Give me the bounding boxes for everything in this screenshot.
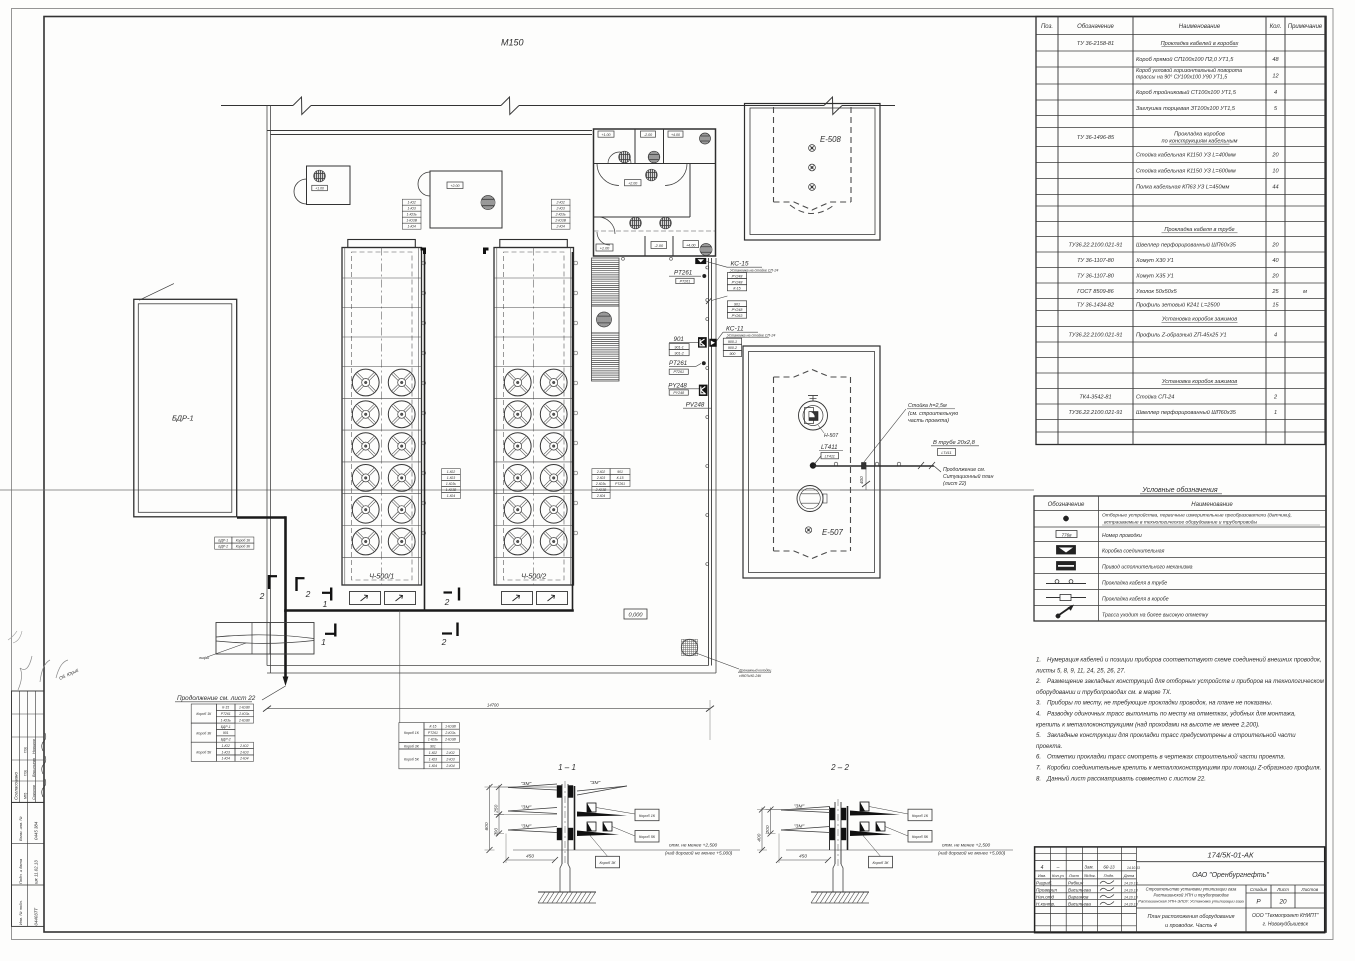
- svg-text:ТУ 36-1496-85: ТУ 36-1496-85: [1077, 135, 1115, 141]
- label pipe 20x2.8: [931, 440, 979, 456]
- title block sheet title: [1148, 914, 1235, 929]
- svg-text:Установка коробок зажимов: Установка коробок зажимов: [1161, 317, 1237, 323]
- E-507 nozzle and label: [805, 527, 843, 537]
- legend symbol: cable in duct: [1046, 594, 1169, 602]
- equipment block B: [418, 171, 502, 228]
- spec rows: cable structures section: [1077, 132, 1280, 191]
- svg-text:Короб 1К: Короб 1К: [236, 539, 251, 543]
- cooler Ч-500/1 grid: [342, 278, 422, 557]
- left margin inventory table: [12, 802, 45, 926]
- svg-text:Васильева: Васильева: [1068, 888, 1091, 893]
- svg-text:+1.00: +1.00: [315, 186, 324, 190]
- svg-text:сд607к/Ю-24К: сд607к/Ю-24К: [739, 674, 762, 678]
- continuation text sheet 22: [175, 694, 256, 702]
- site boundary west double line: [267, 106, 271, 674]
- cooler Ч-500/2 outline: [494, 240, 574, 586]
- svg-text:по конструкциям кабельным: по конструкциям кабельным: [1162, 139, 1238, 145]
- svg-text:Коробки соединительные крепить: Коробки соединительные крепить к металло…: [1047, 766, 1321, 772]
- svg-text:г. Новокуйбышевск: г. Новокуйбышевск: [1263, 921, 1309, 928]
- svg-text:Рябкин: Рябкин: [1068, 881, 1084, 886]
- svg-text:2-Ю3В: 2-Ю3В: [444, 738, 456, 742]
- svg-text:1-Ю3: 1-Ю3: [429, 758, 437, 762]
- svg-text:PT261: PT261: [674, 270, 692, 277]
- svg-text:Прокладка коробов: Прокладка коробов: [1174, 132, 1225, 138]
- spec rows: cable duct section: [1077, 40, 1280, 112]
- svg-text:План расположения оборудования: План расположения оборудования: [1148, 914, 1235, 920]
- building inner walls: [594, 129, 716, 256]
- building room level labels: [596, 131, 699, 251]
- svg-text:Р: Р: [1256, 899, 1261, 906]
- stairs lower flight: [592, 333, 620, 381]
- svg-text:+1.00: +1.00: [600, 247, 610, 251]
- svg-text:"ЗМ": "ЗМ": [521, 805, 532, 811]
- spec rows: terminal boxes section 1: [1069, 317, 1278, 339]
- label group 901 PY248 PY263: [706, 296, 747, 318]
- svg-text:ГОСТ 8509-86: ГОСТ 8509-86: [1077, 289, 1114, 295]
- svg-text:Хомут Х30 У1: Хомут Х30 У1: [1135, 258, 1174, 264]
- svg-text:Заглушка торцевая ЗТ100х100 УТ: Заглушка торцевая ЗТ100х100 УТ1,5: [1136, 106, 1236, 112]
- svg-text:Хомут Х35 У1: Хомут Х35 У1: [1135, 273, 1174, 279]
- specification table header: [1041, 24, 1323, 30]
- svg-text:БДР-1: БДР-1: [221, 725, 231, 729]
- svg-text:PY248: PY248: [732, 308, 743, 312]
- svg-text:Подп.: Подп.: [1104, 873, 1115, 878]
- svg-text:PT261: PT261: [680, 279, 691, 283]
- svg-text:Согласовано: Согласовано: [14, 772, 19, 800]
- svg-text:Обозначение: Обозначение: [1048, 502, 1085, 508]
- svg-text:450: 450: [526, 854, 534, 860]
- svg-text:Уголок 50х50х5: Уголок 50х50х5: [1135, 289, 1178, 295]
- cooler Ч-500/1 bottom boxes: [350, 592, 416, 605]
- svg-text:1-Ю2: 1-Ю2: [407, 201, 415, 205]
- svg-text:Соколов: Соколов: [32, 785, 36, 800]
- svg-text:Короб 5К: Короб 5К: [639, 835, 656, 839]
- svg-text:2-Ю3: 2-Ю3: [445, 758, 454, 762]
- svg-text:оборудовании и трубопроводах с: оборудовании и трубопроводах см. в марке…: [1036, 690, 1172, 696]
- svg-text:(над дорогой не менее +5,000): (над дорогой не менее +5,000): [665, 850, 733, 856]
- svg-text:К-15: К-15: [222, 706, 229, 710]
- svg-text:2-Ю2: 2-Ю2: [445, 751, 454, 755]
- section 1 – 1 ground line and elevation note: [513, 843, 740, 856]
- section 2 – 2 dimensions: [757, 807, 832, 864]
- svg-text:PY248: PY248: [668, 383, 687, 390]
- svg-text:14.10.13: 14.10.13: [1124, 882, 1138, 886]
- junction box KC-15 symbol: [696, 258, 707, 264]
- svg-text:Короб 3К: Короб 3К: [599, 861, 616, 865]
- svg-text:2: 2: [305, 589, 311, 599]
- svg-text:2-Ю3ь: 2-Ю3ь: [555, 213, 566, 217]
- svg-text:2-Ю3В: 2-Ю3В: [595, 488, 607, 492]
- svg-text:Ч-500/2: Ч-500/2: [521, 572, 546, 581]
- tank E-507 enclosure: [743, 346, 880, 578]
- cooler Ч-500/2 label: [521, 572, 546, 581]
- svg-text:Дренажный колодец: Дренажный колодец: [738, 669, 771, 673]
- bold cable continuation arrow: [262, 611, 288, 701]
- legend symbol: actuator drive: [1057, 562, 1193, 571]
- title block grid: [1035, 847, 1325, 933]
- svg-text:Прокладка кабеля в трубе: Прокладка кабеля в трубе: [1164, 227, 1234, 233]
- elevation 0.000 box: [624, 609, 647, 619]
- svg-text:"ЗМ": "ЗМ": [590, 780, 601, 786]
- section 2 – 2 right arms: [850, 802, 900, 836]
- svg-text:ПЭ): ПЭ): [24, 770, 28, 776]
- svg-text:Взам. инв. №: Взам. инв. №: [18, 816, 23, 841]
- svg-text:М150: М150: [501, 38, 524, 48]
- svg-text:2-Ю2: 2-Ю2: [239, 744, 248, 748]
- svg-text:04403ТТ: 04403ТТ: [34, 908, 39, 926]
- spec rows: terminal boxes section 2: [1069, 379, 1278, 416]
- svg-text:400: 400: [757, 833, 763, 841]
- svg-text:LT411: LT411: [821, 444, 838, 451]
- svg-text:1-Ю3В: 1-Ю3В: [445, 725, 456, 729]
- svg-text:Е-507: Е-507: [822, 528, 843, 537]
- section mark 1 (lower): [321, 624, 335, 648]
- spec rows: cable in pipe section: [1069, 227, 1308, 309]
- BDR table: [215, 537, 254, 549]
- svg-text:44: 44: [1272, 185, 1278, 191]
- svg-text:проекта.: проекта.: [1036, 744, 1062, 750]
- E-507 manhole circle: [797, 486, 827, 512]
- site fence north: [221, 97, 895, 115]
- svg-text:Расташинской УПН и трубопровод: Расташинской УПН и трубопроводов: [1153, 893, 1229, 898]
- section 1 – 1 pole: [560, 781, 570, 892]
- svg-text:Стойка кабельная К1150 УЗ L=6: Стойка кабельная К1150 УЗ L=600мм: [1136, 168, 1236, 175]
- svg-text:(лист 22): (лист 22): [943, 481, 967, 487]
- svg-text:1-Ю3ь: 1-Ю3ь: [446, 482, 456, 486]
- tank E-508 nozzles: [809, 145, 816, 191]
- building door arcs: [597, 152, 687, 245]
- svg-text:1-Ю2: 1-Ю2: [222, 744, 230, 748]
- svg-text:ТУ 36-1107-80: ТУ 36-1107-80: [1077, 258, 1115, 264]
- svg-text:Поз.: Поз.: [1041, 24, 1053, 30]
- svg-text:Размещение закладных конструкц: Размещение закладных конструкций для отб…: [1047, 678, 1325, 685]
- svg-text:Условные обозначения: Условные обозначения: [1141, 486, 1218, 494]
- svg-text:Номер проводки: Номер проводки: [1102, 533, 1142, 539]
- svg-text:Проверил: Проверил: [1036, 888, 1057, 893]
- label PY248 with junction box: [668, 383, 707, 396]
- level transmitter LT411: [819, 444, 843, 459]
- svg-text:Наименование: Наименование: [1179, 24, 1221, 30]
- svg-text:Короб 3К: Короб 3К: [404, 744, 420, 748]
- svg-text:1-Ю3В: 1-Ю3В: [239, 706, 250, 710]
- legend symbol: instrument dot: [1063, 512, 1320, 526]
- svg-text:Короб прямой СП100х100 П2,0 УТ: Короб прямой СП100х100 П2,0 УТ1,5: [1136, 56, 1234, 63]
- svg-text:Короб 5К: Короб 5К: [404, 758, 420, 762]
- svg-text:Зам.: Зам.: [1084, 865, 1093, 870]
- instrument point on E-507: [810, 463, 816, 469]
- svg-text:600: 600: [484, 822, 490, 830]
- svg-text:Профиль зетовый К241 L=2500: Профиль зетовый К241 L=2500: [1136, 302, 1221, 309]
- section mark 2 (unit2 lower): [441, 623, 458, 648]
- svg-text:Продолжение см.: Продолжение см.: [943, 467, 985, 473]
- svg-text:Н-507: Н-507: [824, 433, 839, 439]
- svg-text:25: 25: [1271, 289, 1279, 295]
- wire stack 4 (mid, unit 2): [592, 469, 630, 499]
- svg-text:Разводку одиночных трасс выпол: Разводку одиночных трасс выполнить по ме…: [1047, 712, 1296, 718]
- section mark 2 (unit2 upper): [444, 588, 460, 608]
- svg-text:4: 4: [1274, 332, 1277, 338]
- svg-text:14.10.13: 14.10.13: [1124, 896, 1138, 900]
- svg-text:Прокладка кабелей в коробах: Прокладка кабелей в коробах: [1161, 40, 1239, 47]
- svg-text:-2.00: -2.00: [644, 133, 652, 137]
- section 1 – 1 title: [558, 763, 576, 772]
- svg-text:Стойка h=2,5м: Стойка h=2,5м: [908, 402, 947, 409]
- svg-text:Васильева: Васильева: [1068, 901, 1091, 906]
- svg-text:12: 12: [1272, 74, 1279, 80]
- svg-text:Короб 1К: Короб 1К: [196, 712, 212, 716]
- cooler Ч-500/1 side fixation circles: [422, 261, 426, 535]
- label PV248: [683, 402, 711, 409]
- svg-text:Профиль Z-образный ZП-45х25 У1: Профиль Z-образный ZП-45х25 У1: [1136, 331, 1227, 338]
- svg-text:Короб 3К: Короб 3К: [196, 731, 212, 735]
- svg-text:+4.00: +4.00: [686, 243, 696, 247]
- svg-text:Примечание: Примечание: [1288, 24, 1323, 30]
- svg-text:ТУ 36-2158-81: ТУ 36-2158-81: [1077, 41, 1114, 47]
- svg-text:-2.00: -2.00: [654, 244, 664, 248]
- svg-text:Короб 5К: Короб 5К: [196, 750, 212, 754]
- label KC-15 group: [707, 261, 779, 291]
- legend title: [1140, 486, 1222, 494]
- svg-text:10: 10: [1272, 169, 1279, 175]
- svg-text:PV248: PV248: [686, 402, 705, 409]
- svg-text:К-15: К-15: [617, 476, 624, 480]
- legend symbol: route goes up: [1056, 605, 1209, 619]
- label 901 left: [669, 336, 698, 356]
- svg-text:"ЗМ": "ЗМ": [521, 824, 532, 830]
- svg-text:и проводок. Часть 4: и проводок. Часть 4: [1165, 923, 1217, 929]
- svg-text:Прокладка кабеля в трубе: Прокладка кабеля в трубе: [1102, 581, 1167, 587]
- svg-text:Нач.отд: Нач.отд: [1036, 894, 1055, 899]
- svg-text:шк 11.02.13: шк 11.02.13: [34, 860, 39, 884]
- svg-text:Обозначение: Обозначение: [1077, 24, 1114, 30]
- svg-text:КС-15: КС-15: [731, 261, 749, 268]
- title block stage-sheet header: [1250, 887, 1319, 905]
- svg-text:PY263: PY263: [732, 314, 743, 318]
- bold cable duct cooler risers: [421, 248, 573, 611]
- tank E-508 enclosure: [745, 104, 881, 241]
- cooler Ч-500/2 fans: [504, 369, 567, 555]
- equipment block A: [294, 166, 350, 205]
- svg-text:Разраб.: Разраб.: [1036, 881, 1053, 886]
- svg-text:900: 900: [729, 352, 735, 356]
- duct content table left: [191, 704, 253, 761]
- svg-text:14.10.13: 14.10.13: [1124, 889, 1138, 893]
- section 1 – 1 right arms: [577, 780, 627, 836]
- svg-text:8.: 8.: [1036, 776, 1041, 782]
- svg-text:1-Ю3: 1-Ю3: [447, 476, 455, 480]
- svg-text:Короб 5К: Короб 5К: [912, 835, 929, 839]
- svg-text:PY248: PY248: [732, 280, 743, 284]
- svg-text:1 – 1: 1 – 1: [558, 763, 576, 772]
- wire from duct to table right: [399, 611, 401, 723]
- pump H-507: [799, 396, 840, 440]
- stairs landing with instrument: [592, 306, 620, 333]
- specification table grid: [1036, 17, 1325, 445]
- svg-text:Продолжение см. лист 22: Продолжение см. лист 22: [177, 694, 256, 702]
- svg-text:"ЗМ": "ЗМ": [794, 804, 805, 810]
- svg-text:Швеллер перфорированный ШП60х: Швеллер перфорированный ШП60х35: [1136, 409, 1237, 416]
- svg-text:900-2: 900-2: [728, 346, 737, 350]
- section 2 – 2 duct labels: [863, 807, 932, 868]
- svg-text:1-Ю4: 1-Ю4: [447, 494, 455, 498]
- svg-text:LT411: LT411: [825, 455, 835, 459]
- svg-text:Е-508: Е-508: [820, 135, 841, 144]
- svg-text:2-Ю4: 2-Ю4: [239, 757, 248, 761]
- section 1 – 1 ground hatch: [538, 892, 596, 903]
- svg-text:7.: 7.: [1036, 766, 1041, 772]
- svg-text:+4.00: +4.00: [671, 133, 680, 137]
- wire stack 1 (north, unit 1): [402, 199, 421, 229]
- svg-text:1-Ю3ь: 1-Ю3ь: [221, 718, 231, 722]
- svg-text:48: 48: [1272, 57, 1279, 63]
- svg-text:174/5К-01-АК: 174/5К-01-АК: [1208, 851, 1255, 860]
- cooler Ч-500/2 side fixation circles: [574, 261, 578, 535]
- legend table grid: [1034, 496, 1326, 621]
- svg-text:Установка на стойке СП-24: Установка на стойке СП-24: [727, 333, 775, 337]
- svg-text:Стойка СП-24: Стойка СП-24: [1136, 393, 1174, 400]
- title block company: [1192, 871, 1269, 879]
- svg-text:900-1: 900-1: [728, 340, 737, 344]
- stairs upper flight: [592, 258, 620, 306]
- svg-text:2: 2: [441, 637, 447, 647]
- svg-text:Стадия: Стадия: [1250, 887, 1268, 892]
- svg-text:1-Ю3ь: 1-Ю3ь: [407, 213, 417, 217]
- svg-text:Трасса уходит на более высокую: Трасса уходит на более высокую отметку: [1102, 613, 1209, 619]
- svg-text:20: 20: [1278, 899, 1287, 906]
- site boundary east double line: [709, 258, 717, 673]
- duct content table right: [399, 723, 459, 769]
- svg-text:Короб 3К: Короб 3К: [872, 861, 889, 865]
- svg-text:К-15: К-15: [733, 287, 740, 291]
- svg-text:Кол.уч: Кол.уч: [1052, 873, 1064, 878]
- svg-text:Н.контр.: Н.контр.: [1036, 901, 1055, 906]
- svg-text:часть проекта): часть проекта): [908, 418, 949, 424]
- svg-text:2: 2: [259, 591, 265, 601]
- svg-text:901: 901: [674, 336, 684, 343]
- svg-text:2-Ю3: 2-Ю3: [239, 750, 248, 754]
- svg-text:2-Ю3ь: 2-Ю3ь: [444, 731, 455, 735]
- svg-text:14.10.13: 14.10.13: [1124, 903, 1138, 907]
- svg-text:ТУ 36-1434-82: ТУ 36-1434-82: [1077, 303, 1115, 309]
- svg-text:Короб тройниковый СТ100х100 УТ: Короб тройниковый СТ100х100 УТ1,5: [1136, 89, 1237, 96]
- svg-text:Установка коробок зажимов: Установка коробок зажимов: [1161, 379, 1237, 385]
- section 1 – 1 dimensions: [484, 784, 558, 863]
- svg-text:Подп. и дата: Подп. и дата: [18, 858, 23, 884]
- boundary tick circles south of building: [622, 257, 673, 260]
- svg-text:1-Ю4: 1-Ю4: [222, 757, 230, 761]
- section 2 – 2 ground line and elevation note: [786, 843, 1013, 856]
- svg-text:БДР-2: БДР-2: [221, 738, 231, 742]
- svg-text:№док.: №док.: [1084, 873, 1096, 878]
- svg-text:1-Ю2: 1-Ю2: [447, 470, 455, 474]
- svg-text:крепить к металлоконструкциям: крепить к металлоконструкциям (над прохо…: [1036, 722, 1260, 728]
- svg-text:776в: 776в: [1062, 532, 1073, 537]
- svg-text:ПЭ): ПЭ): [24, 747, 28, 753]
- block BDR-1: [134, 284, 237, 517]
- section 2 – 2 pole: [833, 799, 843, 892]
- trunk junction circles: [706, 266, 709, 566]
- svg-text:PT261: PT261: [669, 360, 687, 367]
- svg-text:Швеллер перфорированный ШП60х: Швеллер перфорированный ШП60х35: [1136, 241, 1237, 248]
- svg-text:КС-11: КС-11: [726, 326, 744, 333]
- svg-text:Коробка соединительная: Коробка соединительная: [1102, 549, 1165, 555]
- svg-text:20: 20: [1271, 153, 1279, 159]
- svg-text:Ч-500/1: Ч-500/1: [369, 572, 394, 581]
- svg-text:МП): МП): [24, 793, 28, 799]
- svg-text:901: 901: [430, 744, 436, 748]
- svg-text:PT261: PT261: [428, 731, 438, 735]
- svg-text:901: 901: [223, 731, 229, 735]
- tank E-507 vessel dashed: [774, 370, 851, 559]
- svg-text:Инв. № подл.: Инв. № подл.: [18, 900, 23, 925]
- section mark 1 (upper): [322, 588, 331, 610]
- svg-text:Новиков: Новиков: [32, 739, 36, 754]
- svg-text:Наименование: Наименование: [1191, 502, 1233, 508]
- svg-text:200: 200: [494, 828, 500, 837]
- svg-text:PT261: PT261: [221, 712, 231, 716]
- svg-text:+2.00: +2.00: [628, 182, 637, 186]
- svg-text:1-Ю3ь: 1-Ю3ь: [428, 738, 438, 742]
- section 1 – 1 duct labels: [590, 808, 659, 868]
- svg-text:листы 5, 8, 9, 11, 24, 25, 26,: листы 5, 8, 9, 11, 24, 25, 26, 27.: [1035, 668, 1125, 674]
- tank E-508 label: [820, 135, 841, 144]
- svg-text:ОАО "Оренбургнефть": ОАО "Оренбургнефть": [1192, 871, 1269, 879]
- svg-text:Короб 1К: Короб 1К: [639, 814, 656, 818]
- cooler Ч-500/2 grid: [494, 278, 574, 557]
- svg-text:–: –: [1056, 865, 1060, 871]
- svg-text:1-Ю3В: 1-Ю3В: [446, 488, 457, 492]
- svg-text:БДР-1: БДР-1: [172, 414, 194, 423]
- svg-text:14.10.13: 14.10.13: [1127, 866, 1140, 870]
- svg-text:Лист: Лист: [1276, 887, 1289, 892]
- title block project description: [1138, 887, 1244, 904]
- svg-text:"ЗМ": "ЗМ": [794, 824, 805, 830]
- svg-text:Строительство установки утилиз: Строительство установки утилизации газа: [1146, 887, 1237, 892]
- svg-text:+1.00: +1.00: [601, 133, 610, 137]
- svg-text:Полка кабельная КП63 УЗ L=450м: Полка кабельная КП63 УЗ L=450мм: [1136, 185, 1229, 191]
- svg-text:ООО "Техмопроект КНИПТ": ООО "Техмопроект КНИПТ": [1252, 913, 1319, 919]
- svg-text:20: 20: [1271, 242, 1279, 248]
- svg-text:1: 1: [1274, 410, 1277, 416]
- label M150: [501, 38, 524, 48]
- svg-text:БДР-2: БДР-2: [218, 545, 228, 549]
- site boundary south double line: [267, 666, 716, 674]
- legend symbol: wiring number box: [1056, 531, 1142, 540]
- svg-text:1-Ю3В: 1-Ю3В: [406, 219, 417, 223]
- wire stack 2 (north, unit 2): [551, 199, 570, 229]
- svg-text:Кол.: Кол.: [1270, 24, 1282, 30]
- svg-text:ТК4-3542-81: ТК4-3542-81: [1079, 394, 1111, 400]
- cooler Ч-500/1 fans: [352, 369, 415, 555]
- svg-text:Расташинская УПН-ЭЛОУ. Установ: Расташинская УПН-ЭЛОУ. Установка утилиза…: [1138, 899, 1244, 904]
- svg-text:0445 384: 0445 384: [34, 821, 39, 840]
- cooler Ч-500/1 label: [369, 572, 394, 581]
- svg-text:В трубе 20х2,8: В трубе 20х2,8: [933, 440, 976, 446]
- svg-text:40: 40: [1272, 258, 1279, 264]
- section 2 – 2 left arms: [781, 804, 830, 833]
- svg-text:5.: 5.: [1036, 733, 1041, 739]
- svg-text:ТУ36.22.2100.021-91: ТУ36.22.2100.021-91: [1069, 332, 1123, 338]
- svg-text:Установка на стойке СП-24: Установка на стойке СП-24: [730, 268, 778, 272]
- svg-text:1: 1: [321, 637, 326, 647]
- svg-text:200: 200: [765, 825, 771, 834]
- svg-text:4: 4: [1041, 865, 1044, 871]
- svg-text:(над дорогой не менее +5,000): (над дорогой не менее +5,000): [938, 850, 1006, 856]
- svg-text:0,000: 0,000: [629, 613, 644, 619]
- svg-text:+2.00: +2.00: [450, 184, 459, 188]
- svg-text:Ситуационный план: Ситуационный план: [943, 473, 994, 480]
- continuation to situational plan: [934, 466, 994, 487]
